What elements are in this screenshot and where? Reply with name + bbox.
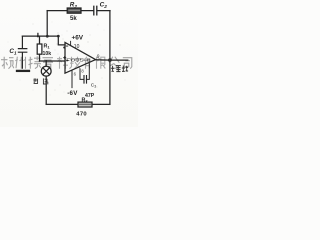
capacitor C1 — [18, 36, 26, 68]
char 6 ji — [70, 57, 81, 69]
capacitor C3 — [84, 76, 87, 83]
label shuchu (output) glyphs — [111, 66, 128, 72]
node junction R1 stub — [37, 33, 39, 37]
capacitor C2 — [94, 6, 97, 15]
node lamp top — [45, 60, 47, 62]
op-amp minus input mark — [63, 46, 68, 49]
label F005-8 inside op-amp — [66, 58, 91, 63]
char 1 hang — [1, 57, 14, 69]
char 4 rui — [43, 58, 54, 69]
label C1 — [9, 48, 17, 55]
char 2 zhou — [15, 57, 25, 69]
svg-text:R1: R1 — [44, 43, 51, 49]
svg-text:10k: 10k — [43, 51, 52, 57]
label 470 — [76, 112, 87, 118]
wire pin C3 left — [80, 69, 84, 79]
wire input horizontal — [22, 36, 65, 45]
char 8 xian — [97, 57, 106, 69]
label R1 — [44, 43, 51, 49]
label C2 — [100, 2, 108, 9]
label 5k — [70, 16, 77, 22]
char 10 si — [123, 58, 132, 69]
wire right vertical (output branch) — [109, 11, 111, 105]
label pin 9 — [97, 54, 100, 59]
svg-text:R3: R3 — [82, 97, 89, 103]
svg-text:10: 10 — [74, 44, 80, 50]
wire lower input — [40, 60, 65, 62]
node junction left-vertical/input — [46, 35, 60, 38]
wire bottom rail — [46, 103, 110, 105]
wire output — [96, 59, 128, 61]
wire +6V stub pin 10 — [70, 41, 72, 45]
label pin 6 — [74, 72, 77, 77]
label pin 11 — [81, 68, 84, 73]
label lamp tiny chars — [33, 78, 38, 83]
wire pin -6V below op-amp — [71, 71, 73, 88]
svg-text:+6V: +6V — [72, 35, 84, 42]
node output junction — [108, 58, 112, 62]
char 5 ke — [57, 57, 68, 69]
resistor R2 — [67, 8, 81, 13]
watermark gray CJK row — [1, 56, 132, 68]
svg-text:F005-8: F005-8 — [66, 58, 91, 63]
char 7 you — [83, 57, 91, 69]
label L1 — [43, 78, 47, 84]
label -6V — [67, 90, 78, 97]
op-amp plus input mark — [63, 56, 68, 61]
lamp L1 — [41, 61, 51, 76]
label 10k — [43, 51, 52, 57]
char 3 jiang — [29, 56, 42, 68]
label R3 — [82, 97, 89, 103]
wire pin C3 right — [86, 64, 89, 80]
label R2 — [70, 2, 78, 9]
wire lamp down to bottom rail — [45, 76, 47, 104]
ground — [17, 70, 29, 72]
label C3 — [91, 82, 96, 88]
label 47P — [85, 93, 95, 99]
svg-text:-6V: -6V — [67, 90, 78, 97]
char 9 gong — [109, 57, 119, 68]
label +6V — [72, 35, 84, 42]
wire top feedback — [47, 10, 110, 12]
label pin 10 — [74, 44, 80, 50]
wire left vertical from top to input node — [46, 11, 48, 36]
resistor R3 — [78, 102, 92, 107]
resistor R1 — [37, 36, 42, 61]
op-amp U1 triangle — [65, 42, 96, 73]
svg-text:5k: 5k — [70, 16, 77, 22]
paper noise speckles — [8, 22, 126, 96]
svg-text:470: 470 — [76, 112, 87, 118]
